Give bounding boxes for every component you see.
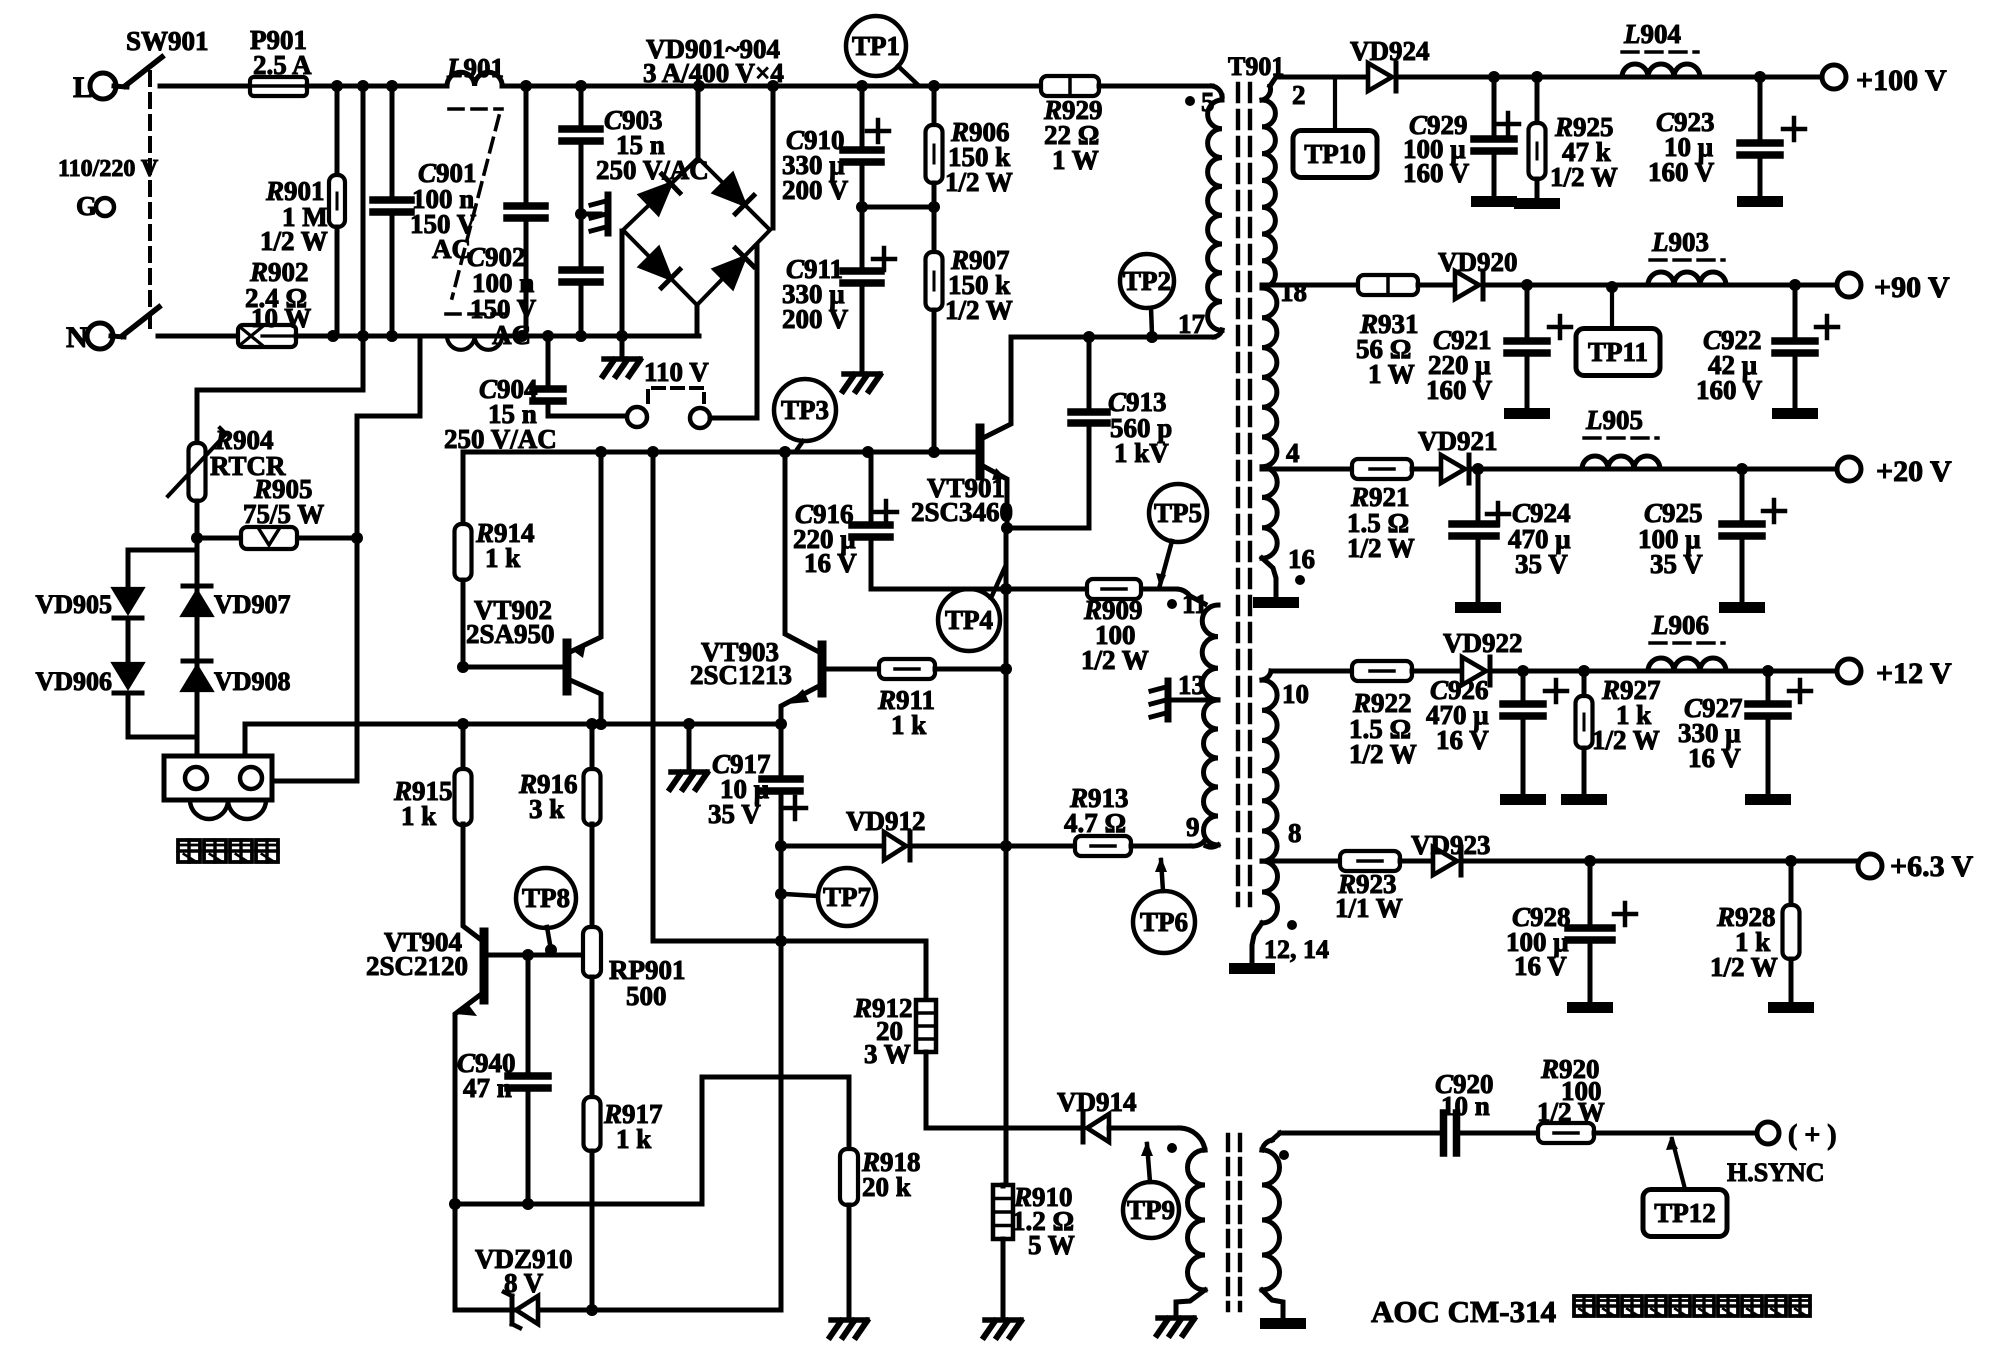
label VD924 <box>1350 36 1430 66</box>
label R917 1k <box>603 1099 663 1154</box>
svg-text:+20 V: +20 V <box>1876 455 1952 488</box>
wire VDZ910 line <box>455 1308 781 1313</box>
TP6 leader <box>1155 857 1167 891</box>
svg-text:1 k: 1 k <box>485 543 520 573</box>
test point TP3 <box>774 379 836 441</box>
resistor R916 <box>584 724 601 928</box>
test point TP5 <box>1149 484 1207 542</box>
junction <box>1736 463 1748 475</box>
label 18 <box>1280 277 1307 307</box>
inductor L901 (top winding) <box>447 72 502 86</box>
terminal +20V <box>1837 455 1952 488</box>
wire VT901 emitter drop <box>1004 528 1009 1186</box>
label 8 <box>1288 818 1302 848</box>
svg-text:10 n: 10 n <box>1441 1091 1490 1121</box>
wire N to R902 <box>158 334 238 339</box>
svg-text:VD922: VD922 <box>1443 628 1523 658</box>
label R911 1k <box>877 685 935 740</box>
wire R912 corner <box>924 941 929 1001</box>
capacitor C903 (lower) <box>562 215 600 336</box>
wire <box>126 693 131 737</box>
diode VD906 <box>114 664 142 693</box>
label VD908 <box>214 667 291 696</box>
T901 primary 5-17 <box>1208 96 1222 330</box>
VT904 emitter <box>455 992 484 1310</box>
test point TP2 <box>1120 254 1174 308</box>
svg-text:16 V: 16 V <box>1436 725 1489 755</box>
junction <box>1531 71 1543 83</box>
junction <box>1517 665 1529 677</box>
svg-text:VD914: VD914 <box>1057 1087 1137 1117</box>
junction <box>1578 665 1590 677</box>
chassis ground <box>670 772 707 789</box>
capacitor C901 <box>373 86 411 336</box>
svg-text:TP6: TP6 <box>1140 907 1188 937</box>
label VT904 2SC2120 <box>366 927 468 981</box>
capacitor C910 <box>843 86 889 207</box>
svg-text:1 k: 1 k <box>891 710 926 740</box>
label R915 1k <box>393 776 453 831</box>
label VD920 <box>1438 247 1518 277</box>
junction <box>693 80 705 92</box>
label R931 56ohm 1W <box>1356 309 1419 389</box>
svg-text:16: 16 <box>1288 544 1315 574</box>
label L906 <box>1650 610 1724 643</box>
label VD912 <box>846 806 926 836</box>
junction <box>1754 71 1766 83</box>
capacitor C923 <box>1737 77 1805 207</box>
svg-text:4.7 Ω: 4.7 Ω <box>1064 808 1126 838</box>
TP5 leader <box>1156 541 1172 588</box>
junction <box>647 446 659 458</box>
test point TP7 <box>818 868 876 926</box>
capacitor C927 <box>1745 671 1811 805</box>
label C910 330u 200V <box>782 125 849 205</box>
svg-text:TP4: TP4 <box>945 605 993 635</box>
wire x363 <box>361 86 366 336</box>
svg-text:TP3: TP3 <box>781 395 829 425</box>
caption <box>1371 1294 1810 1329</box>
polarity dot <box>1167 1143 1177 1153</box>
junction <box>595 718 607 730</box>
junction <box>928 80 940 92</box>
L901 core dashes <box>446 109 505 314</box>
svg-text:1/2 W: 1/2 W <box>1537 1097 1605 1127</box>
label C928 100u 16V <box>1506 902 1571 981</box>
svg-text:2SA950: 2SA950 <box>466 619 555 649</box>
label L904 <box>1622 19 1698 52</box>
svg-text:L: L <box>73 71 93 104</box>
TP4 leader <box>991 567 1005 598</box>
VT902 emitter <box>570 452 601 658</box>
resistor R922 <box>1352 661 1412 681</box>
svg-text:2SC3460: 2SC3460 <box>911 497 1013 527</box>
capacitor C911 <box>843 208 895 370</box>
svg-text:13: 13 <box>1178 670 1205 700</box>
resistor R927 <box>1561 671 1607 805</box>
TP11 leader <box>1606 281 1618 330</box>
label R929 22ohm 1W <box>1043 95 1103 175</box>
junction <box>575 330 587 342</box>
resistor R921 <box>1352 459 1412 479</box>
terminal +90V <box>1837 271 1950 304</box>
junction <box>191 532 203 544</box>
svg-text:160 V: 160 V <box>1648 157 1715 187</box>
label C940 47n <box>457 1048 516 1103</box>
resistor R931 <box>1358 275 1418 295</box>
junction <box>545 944 557 956</box>
degauss connector <box>164 756 272 800</box>
svg-text:+90 V: +90 V <box>1874 271 1950 304</box>
svg-text:3 A/400 V×4: 3 A/400 V×4 <box>643 58 784 88</box>
capacitor C913 <box>1007 337 1107 528</box>
svg-text:1/2 W: 1/2 W <box>1347 533 1415 563</box>
resistor R917 <box>584 1097 601 1310</box>
svg-text:1 kV: 1 kV <box>1114 438 1169 468</box>
svg-text:1/2 W: 1/2 W <box>945 295 1013 325</box>
T901 sec 4-16 <box>1262 467 1277 558</box>
capacitor C924 <box>1452 469 1509 613</box>
wire x651 riser <box>651 452 656 941</box>
svg-text:4: 4 <box>1286 438 1300 468</box>
switch SW901 dashed link <box>148 72 152 330</box>
svg-text:L901: L901 <box>446 53 504 83</box>
wire bridge bottom riser <box>695 305 700 336</box>
junction <box>1001 522 1013 534</box>
label R923 1/1W <box>1335 869 1403 923</box>
svg-text:12, 14: 12, 14 <box>1264 935 1329 964</box>
svg-text:1/2 W: 1/2 W <box>1710 952 1778 982</box>
wire C917 drop to TP7 node <box>779 846 784 941</box>
pin 16 ground <box>1253 558 1299 608</box>
wire R909 line <box>871 589 1205 604</box>
capacitor C940 <box>508 955 548 1204</box>
label R914 1k <box>475 518 535 573</box>
label 4 <box>1286 438 1300 468</box>
wire pin4 <box>1262 467 1352 472</box>
diode VD902 (upper-right) <box>714 174 754 214</box>
capacitor C921 <box>1504 285 1571 419</box>
capacitor C902 <box>507 86 545 336</box>
diode VD914 <box>1083 1114 1109 1142</box>
junction <box>586 718 598 730</box>
svg-text:AOC CM-314: AOC CM-314 <box>1371 1294 1556 1329</box>
VT903 emitter <box>781 686 819 724</box>
svg-text:VD905: VD905 <box>35 590 112 619</box>
T901 sec 8-1214 <box>1229 861 1277 974</box>
label VD923 <box>1411 830 1491 860</box>
diode chain VD905/VD906 branch <box>126 550 131 590</box>
svg-text:10 W: 10 W <box>251 303 311 333</box>
label P901 2.5 A <box>250 25 312 80</box>
junction <box>775 888 787 900</box>
junction <box>779 446 791 458</box>
svg-text:16 V: 16 V <box>1688 743 1741 773</box>
label C916 220u 16V <box>793 499 857 578</box>
junction <box>1146 331 1158 343</box>
svg-text:16 V: 16 V <box>1514 951 1567 981</box>
resistor R923 <box>1340 851 1400 871</box>
transistor VT901 base bar <box>976 428 985 476</box>
junction <box>522 949 534 961</box>
label C904 15 n 250 V/AC <box>444 374 557 454</box>
label 17 <box>1178 309 1205 339</box>
wire pin17 line <box>1011 330 1222 337</box>
wire drop x420 <box>357 336 420 416</box>
TP10 leader <box>1333 77 1337 130</box>
label VD901~904 <box>643 34 784 88</box>
svg-text:200 V: 200 V <box>782 304 849 334</box>
svg-text:VD907: VD907 <box>214 590 291 619</box>
capacitor C920 <box>1444 1113 1457 1153</box>
junction <box>856 201 868 213</box>
svg-text:+12 V: +12 V <box>1876 657 1952 690</box>
wire drop x363 <box>197 336 363 443</box>
label C925 100u 35V <box>1638 498 1703 579</box>
label R918 20k <box>861 1147 921 1202</box>
resistor R906 <box>926 86 943 207</box>
VT904 collector <box>463 884 484 942</box>
T902 core <box>1228 1135 1240 1310</box>
svg-text:SW901: SW901 <box>126 26 209 56</box>
svg-text:35 V: 35 V <box>708 799 761 829</box>
wire T902 to C920 <box>1262 1133 1444 1150</box>
label VD905 <box>35 590 112 619</box>
comb pin13 <box>1151 681 1168 719</box>
wire VD914 to T902 <box>1109 1128 1205 1150</box>
transistor VT904 base bar <box>480 932 489 1000</box>
wire R905 link <box>197 536 357 541</box>
svg-text:35 V: 35 V <box>1650 549 1703 579</box>
label R925 47k 1/2W <box>1550 112 1618 192</box>
label R910 1.2ohm 5W <box>1012 1182 1075 1260</box>
TP1 leader <box>898 66 917 84</box>
svg-text:TP12: TP12 <box>1654 1198 1716 1228</box>
svg-text:VD921: VD921 <box>1418 426 1498 456</box>
chassis ground <box>984 1320 1021 1337</box>
label VD914 <box>1057 1087 1137 1117</box>
wire bridge top riser <box>696 86 701 158</box>
svg-text:2SC1213: 2SC1213 <box>690 660 792 690</box>
test point TP4 <box>938 589 1000 651</box>
svg-text:VD920: VD920 <box>1438 247 1518 277</box>
junction <box>542 330 554 342</box>
wire <box>1483 283 1848 288</box>
svg-text:VD923: VD923 <box>1411 830 1491 860</box>
label R921 1.5ohm 1/2W <box>1347 482 1415 563</box>
resistor R909 <box>1087 579 1141 599</box>
label R920 100 1/2W <box>1537 1054 1605 1127</box>
junction <box>928 446 940 458</box>
svg-text:2: 2 <box>1292 80 1306 110</box>
label VD921 <box>1418 426 1498 456</box>
plug contact (right) <box>690 408 710 428</box>
diode VD904 (lower-right) <box>714 248 754 288</box>
label VT903 2SC1213 <box>690 637 792 690</box>
diode VD907 <box>183 586 211 615</box>
terminal +100V <box>1822 64 1947 97</box>
svg-text:200 V: 200 V <box>782 175 849 205</box>
svg-text:18: 18 <box>1280 277 1307 307</box>
VT901 emitter <box>983 466 1007 528</box>
junction <box>775 718 787 730</box>
svg-text:1/2 W: 1/2 W <box>260 226 328 256</box>
label C917 10u 35V <box>708 749 771 829</box>
resistor R929 <box>1041 76 1099 96</box>
resistor R912 <box>916 1000 936 1128</box>
terminal L <box>73 71 116 104</box>
svg-text:TP8: TP8 <box>522 883 570 913</box>
svg-text:1/2 W: 1/2 W <box>1349 739 1417 769</box>
chassis ground <box>830 1320 867 1337</box>
wire diode chain bottom <box>128 735 197 740</box>
junction <box>1488 71 1500 83</box>
capacitor C904 <box>533 336 627 416</box>
svg-text:17: 17 <box>1178 309 1205 339</box>
resistor R901 <box>329 86 345 336</box>
label L905 <box>1584 405 1658 438</box>
resistor R907 <box>926 207 943 452</box>
test point TP9 <box>1123 1182 1179 1238</box>
svg-text:AC: AC <box>432 234 471 264</box>
svg-text:H.SYNC: H.SYNC <box>1727 1158 1825 1187</box>
test point TP6 <box>1133 891 1195 953</box>
capacitor C903 (upper) <box>562 86 600 213</box>
svg-text:TP9: TP9 <box>1127 1195 1175 1225</box>
svg-text:1 k: 1 k <box>401 801 436 831</box>
TP9 leader <box>1141 1141 1153 1182</box>
resistor R918 <box>840 1149 858 1315</box>
label C922 42u 160V <box>1696 325 1763 405</box>
svg-text:160 V: 160 V <box>1403 158 1470 188</box>
capacitor C925 <box>1719 469 1785 613</box>
wire fuse to L901 <box>307 84 447 89</box>
junction <box>1762 665 1774 677</box>
wire R918 path <box>702 1077 849 1204</box>
junction <box>1000 583 1012 595</box>
junction <box>357 330 369 342</box>
svg-text:160 V: 160 V <box>1426 375 1493 405</box>
diode VD903 (lower-left) <box>640 248 680 288</box>
svg-text:1 W: 1 W <box>1368 359 1415 389</box>
svg-text:VD924: VD924 <box>1350 36 1430 66</box>
wire R929 to T901 pin5 <box>1099 86 1222 96</box>
label C902 100 n 150 V AC <box>467 242 537 350</box>
junction <box>775 935 787 947</box>
capacitor C917 <box>762 724 806 846</box>
junction <box>928 201 940 213</box>
svg-text:16 V: 16 V <box>804 548 857 578</box>
wire <box>1412 467 1441 472</box>
wire <box>126 618 131 665</box>
resistor R920 <box>1538 1123 1594 1143</box>
thermistor R904 <box>168 428 226 756</box>
label 12,14 <box>1264 920 1329 964</box>
junction <box>683 718 695 730</box>
label R927 1k 1/2W <box>1592 675 1661 755</box>
svg-text:TP5: TP5 <box>1154 498 1202 528</box>
junction <box>575 80 587 92</box>
chassis comb (C903 tap) <box>591 195 608 233</box>
junction <box>775 840 787 852</box>
junction <box>351 532 363 544</box>
wire VT902 base line <box>463 665 563 670</box>
resistor R914 <box>455 524 472 667</box>
transistor VT903 base bar <box>818 645 827 693</box>
label VT901 2SC3460 <box>911 473 1013 527</box>
svg-text:2.5 A: 2.5 A <box>253 50 312 80</box>
diode VD921 <box>1441 455 1469 483</box>
label R906 150k 1/2W <box>945 117 1013 197</box>
diode VD923 <box>1433 847 1461 875</box>
diode VD922 <box>1462 657 1490 685</box>
resistor R911 <box>879 659 935 679</box>
label C911 330u 200V <box>782 254 849 334</box>
label R928 1k 1/2W <box>1710 902 1778 982</box>
inductor L904 <box>1622 64 1700 77</box>
diode VD912 <box>884 832 910 860</box>
TP7 leader <box>785 894 817 896</box>
T902 left winding ground <box>1176 1290 1205 1313</box>
resistor R902 <box>238 325 296 347</box>
inductor L905 <box>1582 456 1660 469</box>
wire VD912 line <box>781 844 884 849</box>
junction <box>522 1198 534 1210</box>
wire rail corner to R914 <box>461 452 466 524</box>
svg-text:TP7: TP7 <box>823 882 871 912</box>
svg-text:VD906: VD906 <box>35 667 112 696</box>
pin 11 dot and label <box>1167 589 1208 619</box>
VT903 collector <box>785 452 819 652</box>
svg-text:TP1: TP1 <box>852 31 900 61</box>
wire R913 to pin9 <box>1131 840 1205 846</box>
terminal +12V <box>1837 657 1952 690</box>
T901 core <box>1238 84 1250 905</box>
chassis ground <box>843 374 880 391</box>
TP8 leader <box>547 927 551 950</box>
T901 primary 13-9 <box>1204 700 1219 847</box>
test point TP1 <box>846 16 906 76</box>
svg-text:110 V: 110 V <box>644 357 709 387</box>
T901 sec 18-4 <box>1262 288 1277 467</box>
switch SW901 blade (L) <box>114 57 162 87</box>
wire y1204 line <box>455 1202 702 1207</box>
label C920 10n <box>1435 1069 1494 1121</box>
label VD906 <box>35 667 112 696</box>
terminal H.SYNC <box>1727 1120 1837 1187</box>
T902 right winding <box>1262 1150 1280 1290</box>
svg-text:VD912: VD912 <box>846 806 926 836</box>
pin 5 dot+label <box>1185 87 1215 117</box>
svg-text:1 k: 1 k <box>616 1124 651 1154</box>
junction <box>331 80 343 92</box>
capacitor C916 <box>852 452 897 589</box>
label C923 10u 160V <box>1648 107 1715 187</box>
test point TP8 <box>516 868 576 928</box>
svg-text:L905: L905 <box>1585 405 1643 435</box>
svg-text:35 V: 35 V <box>1515 549 1568 579</box>
label C926 470u 16V <box>1426 675 1489 755</box>
svg-text:( + ): ( + ) <box>1788 1120 1837 1151</box>
label R909 100 1/2W <box>1081 595 1149 675</box>
label C927 330u 16V <box>1678 693 1743 773</box>
terminal N <box>66 321 113 354</box>
test point TP12 <box>1643 1190 1727 1237</box>
junction <box>586 1304 598 1316</box>
svg-text:VD908: VD908 <box>214 667 291 696</box>
inductor L901 (bottom winding) <box>447 336 502 350</box>
plug contact (left) <box>627 407 647 427</box>
